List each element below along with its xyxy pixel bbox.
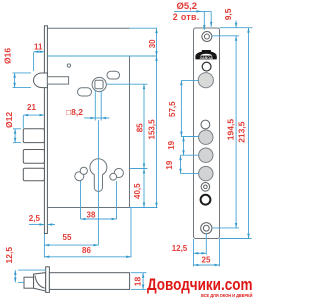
big hole 3 bbox=[199, 148, 213, 162]
sq8,2 ext left bbox=[94, 91, 96, 121]
ext 18 top bbox=[131, 272, 147, 274]
faceplate (edge-on, double line) bbox=[44, 26, 47, 234]
dim 30 and 153,5 shared line bbox=[156, 28, 158, 56]
svg-text:25: 25 bbox=[202, 255, 211, 264]
dim 21 line bbox=[23, 114, 44, 116]
svg-text:12,5: 12,5 bbox=[4, 247, 14, 264]
ext bottom hole center bbox=[213, 227, 239, 229]
lock body outline bbox=[47, 28, 129, 207]
dim 86 line bbox=[44, 256, 131, 258]
svg-text:153,5: 153,5 bbox=[148, 119, 157, 140]
ext top hole center bbox=[212, 35, 239, 37]
ext strip left bottom bbox=[193, 239, 195, 267]
oval hole lower left bbox=[78, 88, 92, 96]
O5,2 label underline bbox=[174, 10, 211, 12]
dim 8,2 arrows bbox=[84, 117, 95, 119]
top screw hole O5,2 bbox=[202, 32, 212, 42]
left fixing hole (peanut) bbox=[75, 172, 84, 181]
ext 12,5 top bbox=[18, 269, 46, 271]
ext 18 bottom bbox=[131, 288, 147, 290]
svg-text:Ø16: Ø16 bbox=[3, 48, 13, 64]
big hole 4 bbox=[199, 166, 213, 180]
sq8,2 ext right bbox=[100, 91, 102, 121]
ext 12,5 bottom bbox=[18, 281, 24, 283]
svg-text:Ø12: Ø12 bbox=[4, 112, 14, 128]
svg-text:18: 18 bbox=[132, 276, 142, 286]
right fixing hole (peanut) bbox=[114, 168, 123, 177]
ext strip bottom bbox=[220, 238, 252, 240]
svg-text:ВСЕ ДЛЯ ОКОН И ДВЕРЕЙ: ВСЕ ДЛЯ ОКОН И ДВЕРЕЙ bbox=[201, 293, 253, 298]
dim 2,5 faceplate arrows bbox=[29, 224, 44, 226]
dim 85 line bbox=[143, 84, 145, 168]
centerline keyhole bbox=[97, 120, 99, 245]
ext body top to 30-dim bbox=[130, 27, 158, 29]
ext O16 top bbox=[13, 72, 32, 74]
ext line y56 bbox=[47, 55, 157, 57]
ext peanut right bbox=[116, 181, 118, 219]
ext hub center y84.2 bbox=[106, 83, 147, 85]
ext faceplate bottom bbox=[43, 234, 45, 258]
dim 25 line bbox=[194, 264, 220, 266]
dim 194,5 line bbox=[235, 36, 237, 228]
dim 57,5 line bbox=[180, 80, 182, 136]
handle hub circle bbox=[92, 77, 106, 91]
square spindle hole 8.2 bbox=[95, 80, 103, 88]
dim 18 line bbox=[142, 273, 144, 290]
big hole 2 bbox=[199, 130, 213, 144]
latch tail bar bbox=[47, 77, 68, 84]
deadbolt pin 3 bbox=[23, 168, 44, 181]
dim 213,5 line bbox=[248, 28, 250, 239]
bottom screw hole bbox=[201, 223, 212, 234]
dim 38 line bbox=[81, 218, 117, 220]
ext O12 bottom bbox=[13, 142, 21, 144]
ext body bottom right bbox=[130, 207, 158, 209]
dim 19 line a bbox=[183, 137, 185, 156]
svg-text:194,5: 194,5 bbox=[226, 119, 236, 141]
oval hole upper right bbox=[107, 71, 120, 79]
svg-text:□8,2: □8,2 bbox=[66, 107, 83, 117]
faceplate edge (side) bbox=[46, 267, 50, 293]
ext strip top bbox=[220, 27, 253, 29]
svg-text:40,5: 40,5 bbox=[133, 183, 142, 199]
ext latch left bbox=[33, 52, 35, 71]
latch tip stub bbox=[24, 277, 34, 288]
dim 12,5 line bbox=[14, 270, 16, 282]
dim 12,5 line bbox=[194, 252, 207, 254]
svg-text:213,5: 213,5 bbox=[237, 121, 247, 143]
faceplate strip outline bbox=[194, 28, 220, 239]
svg-text:11: 11 bbox=[34, 43, 43, 52]
dim 55 line bbox=[44, 244, 98, 246]
ext body right bottom bbox=[130, 208, 132, 258]
leader 2 bbox=[210, 11, 212, 26]
small hole bbox=[202, 62, 211, 71]
ext O16 bottom bbox=[13, 87, 32, 89]
ext big hole2 center bbox=[181, 136, 199, 138]
dim O12 line bbox=[14, 129, 16, 143]
ext O12 top bbox=[13, 128, 21, 130]
factory logo stamp bbox=[195, 50, 217, 56]
svg-text:86: 86 bbox=[82, 246, 91, 255]
latch bevel wedge bbox=[34, 273, 46, 291]
svg-text:85: 85 bbox=[135, 123, 144, 132]
svg-text:21: 21 bbox=[27, 103, 36, 112]
svg-text:9,5: 9,5 bbox=[223, 8, 233, 20]
ext keyhole center y168.5 bbox=[130, 168, 148, 170]
dim 40,5 line bbox=[143, 169, 145, 208]
dim 19 line b bbox=[180, 155, 182, 173]
ext big hole3 center bbox=[181, 154, 199, 156]
deadbolt pin 1 bbox=[23, 129, 44, 143]
ext big hole1 center bbox=[181, 79, 199, 81]
dim O16 line bbox=[14, 73, 16, 88]
svg-text:Ø5,2: Ø5,2 bbox=[177, 1, 198, 12]
ext big hole4 center bbox=[181, 173, 199, 175]
ext strip right bottom bbox=[219, 239, 221, 267]
svg-text:2 отв.: 2 отв. bbox=[173, 12, 200, 22]
blue dims bottom view bbox=[15, 270, 146, 289]
dim 9,5 upper segment bbox=[235, 21, 237, 28]
svg-text:55: 55 bbox=[63, 233, 72, 242]
svg-text:12,5: 12,5 bbox=[172, 244, 188, 253]
ext 21 left bbox=[22, 116, 24, 129]
leader 1 bbox=[203, 11, 205, 30]
svg-text:57,5: 57,5 bbox=[168, 101, 177, 117]
svg-text:ЗАВОД: ЗАВОД bbox=[200, 56, 214, 60]
black ring hole bbox=[201, 195, 211, 205]
dim 11 line bbox=[34, 51, 45, 53]
svg-text:38: 38 bbox=[87, 210, 96, 219]
ext peanut left bbox=[80, 181, 82, 219]
svg-text:19: 19 bbox=[167, 140, 176, 149]
small pin circle bbox=[67, 64, 70, 67]
latch case bar bbox=[49, 273, 129, 290]
svg-text:Доводчики.com: Доводчики.com bbox=[147, 275, 253, 294]
svg-text:19: 19 bbox=[165, 160, 174, 169]
big hole 1 bbox=[198, 73, 213, 88]
double ring hole bbox=[201, 183, 210, 192]
svg-text:30: 30 bbox=[148, 39, 157, 48]
svg-text:2,5: 2,5 bbox=[29, 214, 41, 223]
small hole 2 bbox=[201, 120, 210, 129]
euro cylinder keyhole bbox=[90, 159, 107, 192]
latch bolt (front view) bbox=[34, 73, 48, 88]
ext bottom hole down bbox=[205, 234, 207, 255]
deadbolt pin 2 bbox=[23, 150, 44, 164]
